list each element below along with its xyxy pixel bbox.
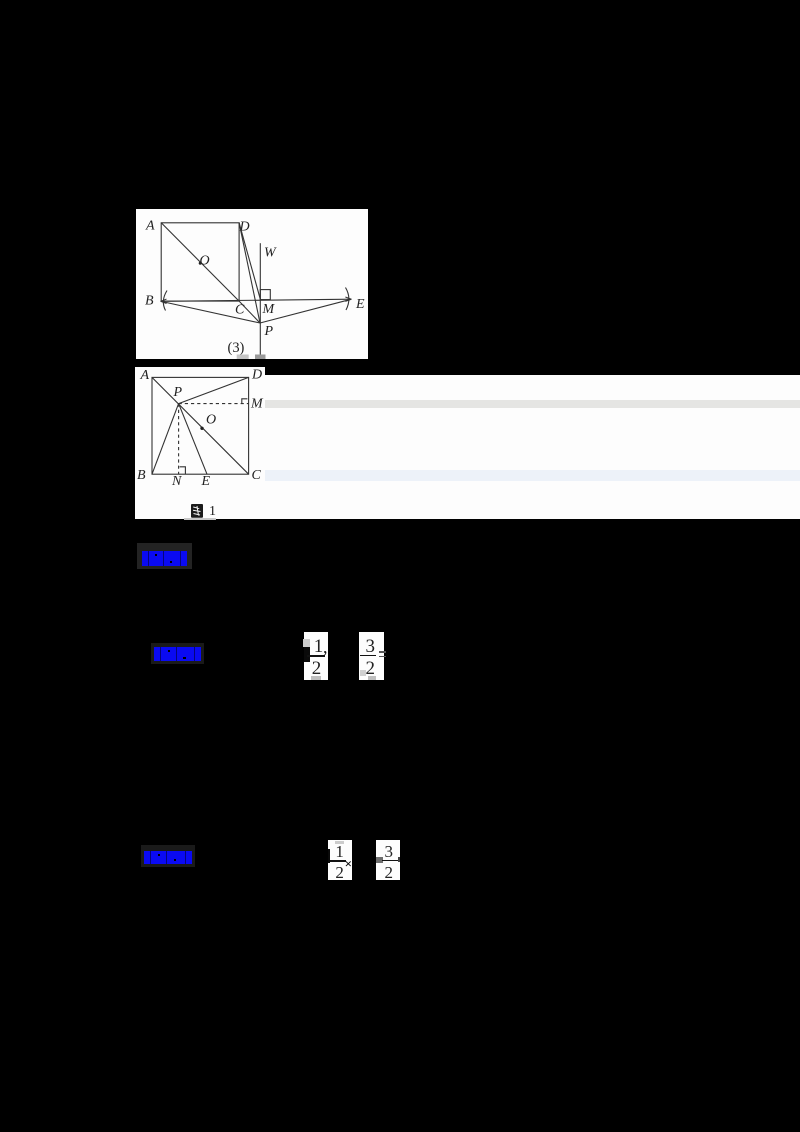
svg-text:E: E — [355, 296, 365, 311]
label box 3 — [141, 845, 195, 867]
dashed line P to M — [179, 403, 249, 405]
blue label 2 — [154, 647, 201, 662]
svg-text:M: M — [261, 301, 275, 316]
svg-text:E: E — [201, 474, 211, 489]
svg-text:P: P — [263, 323, 273, 338]
svg-text:D: D — [251, 368, 262, 383]
figure 2 panel — [135, 367, 265, 519]
square ABCD fig1 — [161, 222, 239, 300]
line D to M — [239, 222, 260, 298]
line P to E fig2 — [179, 404, 207, 475]
arc at E — [345, 287, 348, 309]
gray strip in band — [265, 400, 800, 408]
svg-text:B: B — [137, 468, 146, 483]
diagonal A to C fig2 — [152, 377, 249, 474]
svg-text:1: 1 — [209, 504, 216, 518]
svg-text:C: C — [235, 302, 245, 317]
square ABCD fig2 — [152, 377, 249, 474]
horizontal line B to E — [161, 299, 352, 301]
white band right of figure 2 (stored-white area) — [265, 375, 800, 519]
fraction 1/2 row2 — [304, 632, 328, 680]
caption box 图 — [191, 504, 203, 518]
svg-text:B: B — [145, 293, 154, 308]
right angle at N — [180, 467, 186, 474]
svg-text:O: O — [206, 413, 216, 428]
svg-text:D: D — [239, 219, 250, 234]
svg-text:W: W — [264, 245, 277, 260]
fraction 1/2 row3 — [328, 840, 352, 881]
caption underline smudge — [184, 518, 216, 520]
svg-text:N: N — [171, 474, 182, 489]
line P to D fig2 — [179, 377, 249, 403]
blue label 3 — [144, 851, 193, 864]
svg-text:A: A — [140, 368, 150, 383]
label box 2 — [151, 643, 204, 664]
svg-text:P: P — [173, 385, 183, 400]
dot O fig1 — [199, 261, 202, 264]
fraction 3/2 row2 — [359, 632, 383, 680]
svg-text:(3): (3) — [228, 339, 245, 355]
line B to P — [161, 301, 260, 323]
svg-text:M: M — [250, 396, 264, 411]
light blue strip in band — [265, 470, 800, 481]
svg-text:A: A — [145, 218, 155, 233]
gray smudge left — [237, 354, 249, 358]
arc at B — [163, 290, 167, 310]
figure 1 panel — [136, 209, 368, 359]
equals after 3/2 — [379, 651, 386, 653]
gray smudge right — [255, 354, 265, 359]
line D to P — [239, 222, 260, 322]
svg-text:O: O — [200, 253, 210, 268]
right angle at M fig1 — [260, 289, 270, 299]
line P to B fig2 — [152, 404, 179, 475]
fraction 3/2 row3 — [376, 840, 400, 881]
dashed line P to N — [178, 404, 180, 475]
vertical line W — [259, 243, 261, 355]
diagonal A to C to P — [161, 222, 260, 322]
blue label 1 — [142, 551, 187, 567]
line P to E — [260, 299, 351, 323]
dot O fig2 — [200, 427, 203, 430]
label box 1 — [137, 543, 192, 569]
arrow at B — [161, 299, 167, 303]
arrow at E — [345, 296, 351, 300]
svg-text:C: C — [252, 468, 262, 483]
right angle at M fig2 — [242, 399, 248, 404]
